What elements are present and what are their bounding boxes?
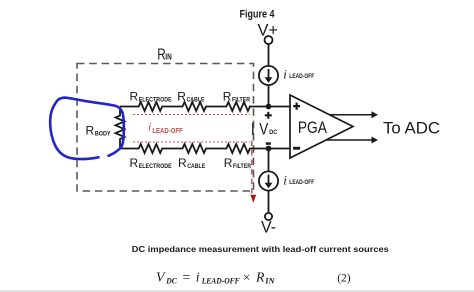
current source I2 (circle with down arrow) [259,171,278,190]
svg-text:i: i [148,120,151,134]
svg-text:ELECTRODE: ELECTRODE [139,96,173,103]
svg-text:LEAD-OFF: LEAD-OFF [152,128,183,135]
bottom page divider line [0,290,474,292]
wire I2 to V- terminal [268,191,270,213]
svg-text:R: R [86,124,95,138]
red dotted lead-off current path (top) [133,114,250,116]
svg-text:IN: IN [264,276,276,285]
svg-text:LEAD-OFF: LEAD-OFF [201,276,241,285]
svg-text:FILTER: FILTER [232,96,250,103]
svg-text:R: R [224,156,233,170]
wire I1 to top input node [268,85,270,107]
svg-text:V: V [259,120,269,139]
svg-text:(2): (2) [337,272,351,284]
svg-text:To ADC: To ADC [383,119,440,138]
svg-text:×: × [243,269,250,284]
op-amp PGA triangle [290,95,353,158]
svg-text:CABLE: CABLE [187,96,206,103]
svg-text:IN: IN [165,53,172,62]
wire V+ terminal to current source I1 [268,44,270,66]
wire bottom node to current source I2 [268,149,270,172]
output wire arrow top [330,114,374,116]
dark dash segment left of V_DC (box edge over wire) [252,123,254,135]
svg-text:R: R [255,269,265,284]
PGA - input sign [293,147,300,150]
PGA + input sign [293,103,300,110]
red return arrowhead [250,195,256,203]
svg-text:V-: V- [261,218,276,237]
svg-text:i: i [283,67,287,82]
svg-text:R: R [130,90,139,104]
svg-text:DC: DC [165,276,177,285]
current source I1 (circle with down arrow) [259,66,278,85]
svg-text:R: R [178,156,187,170]
output wire arrow bottom [327,139,374,141]
bottom rail wire with R_ELECTRODE, R_CABLE, R_FILTER zigzags [120,144,290,153]
svg-text:BODY: BODY [95,130,111,137]
svg-text:i: i [283,173,287,188]
svg-text:LEAD-OFF: LEAD-OFF [289,179,314,186]
equation (2) [156,269,351,285]
V- terminal circle [265,213,272,220]
V_DC polarity plus [265,112,272,119]
svg-text:=: = [183,269,191,284]
svg-text:R: R [177,90,186,104]
blue freehand annotation loop around R_BODY [50,98,124,159]
svg-text:LEAD-OFF: LEAD-OFF [289,73,314,80]
svg-text:PGA: PGA [298,118,328,137]
node dot bottom (PGA - input) [266,146,272,152]
svg-text:FILTER: FILTER [233,163,251,170]
svg-text:DC impedance measurement with: DC impedance measurement with lead-off c… [132,244,389,254]
svg-text:Figure 4: Figure 4 [240,8,276,20]
V+ terminal circle [265,36,273,44]
svg-text:DC: DC [269,129,277,136]
top rail wire with R_ELECTRODE, R_CABLE, R_FILTER zigzags [120,102,290,111]
svg-text:ELECTRODE: ELECTRODE [139,163,173,170]
svg-text:i: i [196,269,200,284]
V_DC polarity minus [266,142,271,145]
svg-text:R: R [130,156,139,170]
red dashed vertical return path [251,141,253,196]
svg-text:R: R [223,90,232,104]
resistor R_BODY (vertical) [116,107,125,149]
red dotted lead-off current path (bottom) [133,141,250,143]
svg-text:CABLE: CABLE [187,163,206,170]
input impedance dashed box [77,64,254,192]
node dot top (PGA + input) [266,104,272,110]
